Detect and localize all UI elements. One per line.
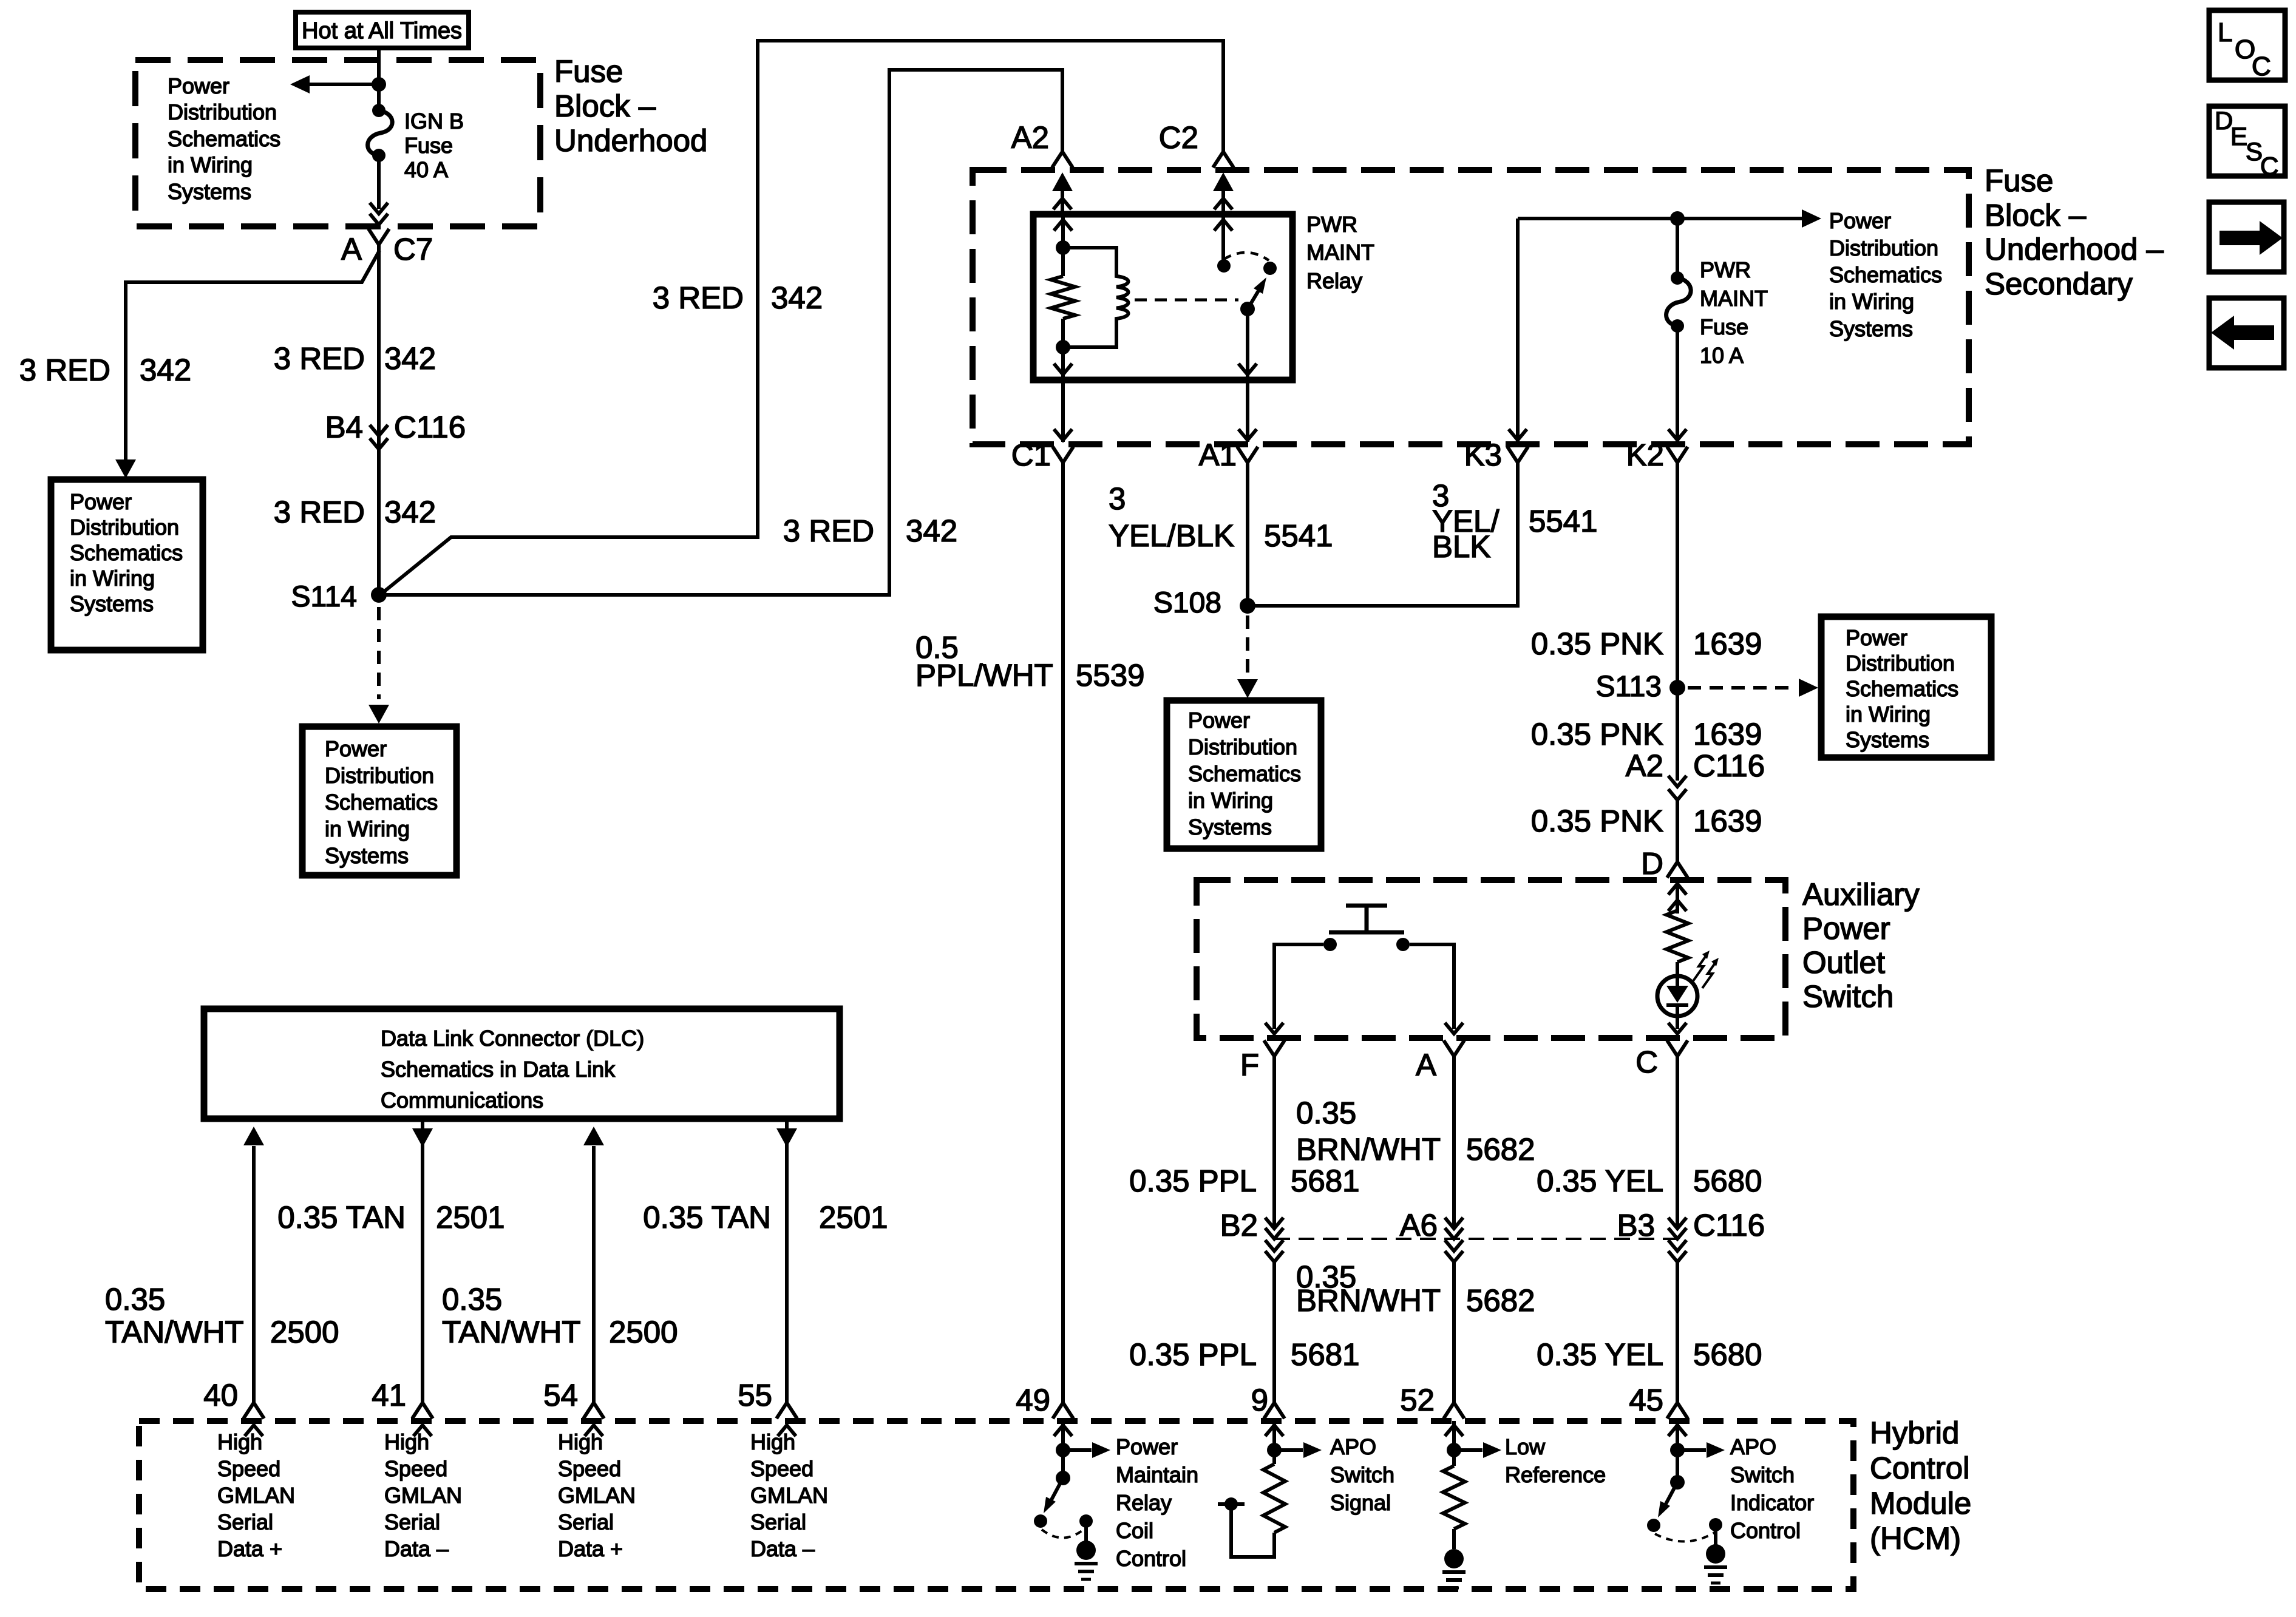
- label 0.35 PPL 5681 (lower): [1129, 1337, 1359, 1372]
- fuse block underhood dashed box: [135, 60, 540, 226]
- svg-text:BRN/WHT: BRN/WHT: [1296, 1283, 1441, 1318]
- svg-text:Schematics: Schematics: [168, 126, 280, 151]
- connector pin 52: [1400, 1383, 1464, 1436]
- label 3 RED 342 (A2 riser): [783, 514, 957, 548]
- ground (pin 49 driver): [1075, 1541, 1098, 1579]
- svg-text:1639: 1639: [1693, 626, 1762, 661]
- svg-text:5539: 5539: [1076, 658, 1144, 693]
- svg-text:Power: Power: [1116, 1434, 1178, 1459]
- svg-text:E: E: [2230, 122, 2247, 151]
- svg-text:L: L: [2218, 18, 2232, 47]
- svg-text:2500: 2500: [270, 1315, 339, 1349]
- svg-text:10 A: 10 A: [1700, 343, 1744, 368]
- svg-text:Distribution: Distribution: [168, 100, 277, 124]
- svg-text:Data –: Data –: [384, 1536, 449, 1561]
- svg-text:2500: 2500: [609, 1315, 678, 1349]
- svg-text:Hybrid: Hybrid: [1870, 1415, 1959, 1450]
- svg-text:5680: 5680: [1693, 1164, 1762, 1198]
- dashed arrow S113 to power distribution: [1688, 679, 1818, 697]
- auxiliary power outlet switch label: [1802, 877, 1920, 1014]
- svg-text:S108: S108: [1153, 587, 1221, 619]
- svg-text:PPL/WHT: PPL/WHT: [915, 658, 1053, 693]
- relay pin C1 wire out: [1054, 347, 1072, 380]
- svg-text:B2: B2: [1220, 1208, 1258, 1242]
- connector K2: [1626, 438, 1688, 472]
- svg-text:Systems: Systems: [325, 843, 409, 868]
- svg-text:in Wiring: in Wiring: [1188, 788, 1273, 813]
- svg-text:Distribution: Distribution: [1846, 651, 1955, 676]
- HCM power maintain relay coil control driver: [1034, 1421, 1110, 1542]
- power distribution schematics box (below S114): [302, 727, 457, 875]
- label 0.35 PNK 1639 (below S113): [1531, 717, 1762, 751]
- wire C7 down to S114: [377, 245, 381, 595]
- svg-text:TAN/WHT: TAN/WHT: [442, 1315, 581, 1349]
- svg-text:Power: Power: [1829, 208, 1891, 233]
- node high speed GMLAN serial data minus (55): [750, 1429, 828, 1561]
- svg-text:K3: K3: [1464, 438, 1502, 472]
- svg-text:0.35 PPL: 0.35 PPL: [1129, 1337, 1257, 1372]
- power distribution schematics note (fuse block): [168, 73, 280, 204]
- power distribution text (S108 box): [1188, 708, 1301, 839]
- wire from Hot at All Times to fuse: [377, 48, 381, 110]
- label 3 YEL/BLK 5541 (K3): [1432, 478, 1597, 564]
- data link connector text: [381, 1026, 644, 1113]
- svg-text:B3: B3: [1617, 1208, 1655, 1242]
- Hot at All Times power tag: [296, 12, 469, 48]
- label 0.35 BRN/WHT 5682 (upper): [1296, 1096, 1535, 1167]
- svg-text:0.35 TAN: 0.35 TAN: [643, 1200, 771, 1235]
- power distribution schematics box (S113): [1821, 617, 1991, 758]
- svg-text:High: High: [384, 1429, 429, 1454]
- wire A2 into relay: [1052, 172, 1073, 214]
- relay switch fixed contact (C2): [1214, 214, 1232, 273]
- svg-text:49: 49: [1016, 1383, 1050, 1417]
- wire DLC to pin 41: [412, 1119, 433, 1405]
- svg-text:Distribution: Distribution: [1829, 236, 1938, 260]
- svg-text:A: A: [341, 232, 362, 266]
- svg-text:Distribution: Distribution: [1188, 734, 1297, 759]
- inline connector B3 C116: [1617, 1208, 1765, 1262]
- svg-text:Underhood: Underhood: [554, 123, 707, 158]
- svg-text:Fuse: Fuse: [1700, 314, 1748, 339]
- svg-text:High: High: [750, 1429, 795, 1454]
- svg-text:41: 41: [372, 1378, 406, 1412]
- svg-text:342: 342: [384, 341, 436, 376]
- svg-text:55: 55: [738, 1378, 772, 1412]
- svg-text:PWR: PWR: [1306, 212, 1357, 237]
- svg-text:C: C: [1635, 1045, 1658, 1079]
- label 3 RED 342 (C2 riser): [653, 280, 823, 315]
- svg-text:TAN/WHT: TAN/WHT: [105, 1315, 244, 1349]
- svg-text:3 RED: 3 RED: [274, 341, 365, 376]
- svg-text:High: High: [558, 1429, 603, 1454]
- wire C to inline connector: [1676, 1056, 1679, 1229]
- svg-text:3 RED: 3 RED: [274, 495, 365, 529]
- svg-text:C116: C116: [1693, 1208, 1765, 1242]
- label 0.35 TAN 2501 (pin 41): [277, 1200, 504, 1235]
- PWR MAINT fuse 10A: [1666, 271, 1691, 333]
- connector A2: [1011, 120, 1073, 168]
- svg-text:Fuse: Fuse: [1985, 163, 2053, 198]
- svg-text:Relay: Relay: [1116, 1490, 1172, 1515]
- svg-text:Block –: Block –: [554, 89, 656, 123]
- power distribution schematics box (below S108): [1167, 700, 1321, 849]
- relay actuation dashed link: [1135, 299, 1238, 302]
- connector pin 9: [1251, 1383, 1285, 1436]
- svg-text:Power: Power: [1802, 911, 1890, 946]
- svg-text:0.35 PNK: 0.35 PNK: [1531, 717, 1663, 751]
- connector A1: [1199, 438, 1258, 472]
- svg-text:1639: 1639: [1693, 717, 1762, 751]
- label 0.35 PNK 1639 (above S113): [1531, 626, 1762, 661]
- label 0.35 PPL 5681 (upper): [1129, 1164, 1359, 1198]
- label 0.35 YEL 5680 (lower): [1537, 1337, 1762, 1372]
- svg-text:Schematics: Schematics: [70, 540, 183, 565]
- svg-text:Systems: Systems: [1188, 815, 1272, 839]
- fuse block underhood secondary label: [1985, 163, 2164, 301]
- svg-text:Speed: Speed: [750, 1456, 813, 1481]
- fuse block underhood label: [554, 54, 707, 158]
- svg-text:Serial: Serial: [750, 1510, 806, 1534]
- label 0.35 TAN/WHT 2500 (pin 54): [442, 1282, 678, 1349]
- LED indicator: [1657, 962, 1697, 1016]
- push button plunger: [1329, 906, 1404, 932]
- svg-text:Power: Power: [1188, 708, 1250, 733]
- svg-text:342: 342: [906, 514, 957, 548]
- wire A6 to HCM pin 52: [1452, 1262, 1456, 1405]
- switch LED feed wire: [1668, 880, 1686, 914]
- svg-text:2501: 2501: [819, 1200, 888, 1235]
- wire A to inline connector: [1452, 1056, 1456, 1229]
- connector pin 49: [1016, 1383, 1073, 1436]
- svg-text:9: 9: [1251, 1383, 1268, 1417]
- svg-text:Hot at All Times: Hot at All Times: [302, 18, 462, 44]
- power distribution note (secondary): [1829, 208, 1942, 341]
- svg-text:in Wiring: in Wiring: [168, 152, 253, 177]
- svg-text:Speed: Speed: [384, 1456, 447, 1481]
- wire branch A to left power distribution: [126, 251, 379, 459]
- inline connector C116 pin B4: [325, 410, 466, 449]
- svg-text:YEL/BLK: YEL/BLK: [1109, 518, 1234, 553]
- svg-text:Power: Power: [325, 736, 387, 761]
- wire S113 to C116: [1676, 688, 1679, 781]
- svg-text:3: 3: [1109, 481, 1126, 516]
- svg-text:A2: A2: [1011, 120, 1049, 155]
- data link connector box: [204, 1009, 840, 1119]
- fuse block underhood secondary dashed box: [973, 170, 1969, 444]
- node low reference: [1505, 1434, 1606, 1487]
- connector C1: [1011, 438, 1073, 472]
- svg-text:GMLAN: GMLAN: [558, 1483, 636, 1508]
- svg-text:Schematics: Schematics: [1188, 761, 1301, 786]
- svg-text:A: A: [1416, 1048, 1436, 1082]
- svg-text:Secondary: Secondary: [1985, 266, 2133, 301]
- svg-text:K2: K2: [1626, 438, 1664, 472]
- svg-text:0.35 PNK: 0.35 PNK: [1531, 804, 1663, 838]
- label 0.5 PPL/WHT 5539: [915, 630, 1144, 693]
- svg-text:MAINT: MAINT: [1700, 286, 1768, 311]
- svg-text:40: 40: [203, 1378, 238, 1412]
- svg-text:Schematics: Schematics: [1829, 262, 1942, 287]
- wire K3 riser: [1509, 219, 1527, 442]
- svg-text:0.35 YEL: 0.35 YEL: [1537, 1337, 1663, 1372]
- svg-text:in Wiring: in Wiring: [325, 816, 410, 841]
- svg-text:Outlet: Outlet: [1802, 945, 1885, 980]
- svg-text:Power: Power: [70, 489, 132, 514]
- svg-text:Data –: Data –: [750, 1536, 815, 1561]
- relay switch contact arc: [1224, 253, 1269, 260]
- svg-text:Systems: Systems: [168, 179, 251, 204]
- inline connector row dashed line: [1274, 1238, 1677, 1240]
- splice S108: [1153, 587, 1255, 619]
- svg-text:5682: 5682: [1466, 1283, 1535, 1318]
- svg-text:A2: A2: [1626, 748, 1663, 783]
- dashed wire S114 to power distribution: [369, 607, 389, 724]
- relay coil: [1063, 248, 1129, 347]
- node high speed GMLAN serial data minus (41): [384, 1429, 462, 1561]
- hybrid control module dashed box: [139, 1421, 1853, 1589]
- svg-text:Switch: Switch: [1802, 979, 1894, 1014]
- DESC icon: [2209, 106, 2285, 180]
- HCM APO switch signal pull-up: [1218, 1421, 1322, 1557]
- connector pin 40: [203, 1378, 264, 1436]
- svg-text:PWR: PWR: [1700, 257, 1751, 282]
- svg-text:BRN/WHT: BRN/WHT: [1296, 1132, 1441, 1167]
- connector C7 pin A: [341, 229, 433, 266]
- wire DLC to pin 54: [583, 1127, 604, 1405]
- svg-text:C1: C1: [1011, 438, 1051, 472]
- arrow to other circuits (left): [290, 75, 386, 93]
- connector pin 41: [372, 1378, 433, 1436]
- svg-text:Control: Control: [1730, 1518, 1801, 1543]
- svg-text:45: 45: [1629, 1383, 1663, 1417]
- switch wire to pin A: [1410, 944, 1463, 1034]
- relay switch NC contact: [1263, 262, 1277, 275]
- svg-text:Signal: Signal: [1330, 1490, 1391, 1515]
- power distribution text (left box): [70, 489, 183, 616]
- connector pin A: [1416, 1040, 1464, 1082]
- svg-text:Distribution: Distribution: [325, 763, 434, 788]
- auxiliary power outlet switch dashed box: [1197, 880, 1785, 1038]
- svg-text:High: High: [217, 1429, 262, 1454]
- svg-text:5681: 5681: [1291, 1337, 1359, 1372]
- LED wire to pin C: [1668, 1016, 1686, 1034]
- power distribution text (S113 box): [1846, 625, 1958, 752]
- svg-text:Switch: Switch: [1730, 1462, 1795, 1487]
- splice S114: [291, 581, 387, 613]
- HCM APO switch indicator control driver: [1647, 1421, 1725, 1545]
- wire C1 to box edge: [1054, 380, 1072, 442]
- svg-text:Data +: Data +: [217, 1536, 282, 1561]
- push button contacts: [1323, 938, 1410, 951]
- svg-text:52: 52: [1400, 1383, 1435, 1417]
- wire K3 to S108: [1248, 463, 1518, 606]
- svg-text:5680: 5680: [1693, 1337, 1762, 1372]
- label 3 RED 342 (below C116): [274, 495, 436, 529]
- svg-text:IGN B: IGN B: [404, 109, 464, 134]
- relay switch common and arm: [1240, 277, 1266, 316]
- svg-text:0.35: 0.35: [105, 1282, 165, 1317]
- svg-text:40 A: 40 A: [404, 157, 448, 182]
- inline connector C116 pin A2: [1626, 748, 1765, 800]
- connector pin D: [1641, 846, 1688, 881]
- svg-text:GMLAN: GMLAN: [384, 1483, 462, 1508]
- svg-text:MAINT: MAINT: [1306, 240, 1374, 265]
- svg-text:Systems: Systems: [70, 591, 154, 616]
- svg-text:5541: 5541: [1264, 518, 1333, 553]
- svg-text:3 RED: 3 RED: [19, 353, 110, 387]
- wire DLC to pin 55: [776, 1119, 797, 1405]
- svg-text:Maintain: Maintain: [1116, 1462, 1198, 1487]
- connector pin 45: [1629, 1383, 1688, 1436]
- connector C2: [1159, 120, 1234, 168]
- label 0.35 PNK 1639 (to switch): [1531, 804, 1762, 838]
- svg-text:Serial: Serial: [217, 1510, 273, 1534]
- svg-text:Systems: Systems: [1829, 316, 1913, 341]
- label 0.35 BRN/WHT 5682 (lower): [1296, 1259, 1535, 1318]
- svg-text:0.35 PNK: 0.35 PNK: [1531, 626, 1663, 661]
- ground (pin 52): [1442, 1549, 1466, 1588]
- wire DLC to pin 40: [243, 1127, 264, 1405]
- PWR MAINT relay box: [1033, 214, 1292, 380]
- fuse IGN B 40A: [368, 104, 393, 162]
- switch wire to pin F: [1265, 944, 1323, 1034]
- HCM low reference resistor: [1443, 1421, 1501, 1549]
- wire C116 to aux switch pin D: [1676, 800, 1679, 862]
- inline connector A6: [1400, 1208, 1463, 1262]
- svg-text:3 RED: 3 RED: [653, 280, 744, 315]
- wire C1 to HCM pin 49: [1061, 463, 1065, 1405]
- wire F to inline connector: [1272, 1056, 1276, 1229]
- svg-text:in Wiring: in Wiring: [1846, 702, 1931, 727]
- svg-text:Speed: Speed: [558, 1456, 621, 1481]
- splice S113: [1595, 671, 1685, 703]
- svg-text:C116: C116: [1693, 748, 1765, 783]
- svg-text:Coil: Coil: [1116, 1518, 1153, 1543]
- svg-text:Serial: Serial: [384, 1510, 440, 1534]
- svg-text:GMLAN: GMLAN: [750, 1483, 828, 1508]
- svg-text:0.35 TAN: 0.35 TAN: [277, 1200, 406, 1235]
- svg-text:Schematics: Schematics: [1846, 676, 1958, 701]
- svg-text:GMLAN: GMLAN: [217, 1483, 295, 1508]
- svg-text:B4: B4: [325, 410, 363, 444]
- svg-text:A6: A6: [1400, 1208, 1438, 1242]
- svg-text:Schematics: Schematics: [325, 790, 438, 815]
- svg-text:Power: Power: [168, 73, 229, 98]
- svg-text:Relay: Relay: [1306, 268, 1362, 293]
- svg-text:Systems: Systems: [1846, 727, 1929, 752]
- relay coil pin A2 wire: [1054, 214, 1072, 255]
- svg-text:BLK: BLK: [1432, 529, 1490, 564]
- svg-text:Reference: Reference: [1505, 1462, 1606, 1487]
- svg-text:Data Link Connector (DLC): Data Link Connector (DLC): [381, 1026, 644, 1051]
- svg-text:342: 342: [384, 495, 436, 529]
- wire S114 right branch to A2: [379, 70, 1062, 595]
- dashed wire S108 to power distribution: [1237, 615, 1258, 698]
- LED series resistor: [1666, 910, 1688, 962]
- svg-text:0.35 YEL: 0.35 YEL: [1537, 1164, 1663, 1198]
- svg-text:5682: 5682: [1466, 1132, 1535, 1167]
- connector pin 55: [738, 1378, 797, 1436]
- svg-text:Distribution: Distribution: [70, 515, 179, 540]
- svg-text:5541: 5541: [1529, 504, 1597, 538]
- PWR MAINT relay label: [1306, 212, 1374, 293]
- relay coil suppression resistor: [1051, 248, 1075, 354]
- node APO switch indicator control: [1730, 1434, 1814, 1543]
- node APO switch signal: [1330, 1434, 1394, 1515]
- svg-text:Indicator: Indicator: [1730, 1490, 1814, 1515]
- connector pin C: [1635, 1040, 1688, 1079]
- svg-text:5681: 5681: [1291, 1164, 1359, 1198]
- svg-text:APO: APO: [1330, 1434, 1376, 1459]
- node power maintain relay coil control: [1116, 1434, 1198, 1571]
- svg-text:Communications: Communications: [381, 1088, 543, 1113]
- wire K2 to box edge: [1668, 326, 1686, 442]
- wire C2 into relay: [1213, 172, 1234, 214]
- ground (pin 45 driver): [1704, 1544, 1727, 1583]
- svg-text:342: 342: [140, 353, 191, 387]
- svg-text:342: 342: [771, 280, 823, 315]
- svg-text:Control: Control: [1870, 1451, 1969, 1485]
- svg-text:1639: 1639: [1693, 804, 1762, 838]
- svg-text:S113: S113: [1595, 671, 1662, 703]
- label 0.35 YEL 5680 (upper): [1537, 1164, 1762, 1198]
- svg-text:Serial: Serial: [558, 1510, 614, 1534]
- svg-text:Fuse: Fuse: [404, 133, 453, 158]
- svg-text:0.35 PPL: 0.35 PPL: [1129, 1164, 1257, 1198]
- svg-text:F: F: [1240, 1048, 1259, 1082]
- svg-text:C: C: [2252, 52, 2271, 81]
- svg-text:Power: Power: [1846, 625, 1907, 650]
- hybrid control module label: [1870, 1415, 1971, 1556]
- svg-text:D: D: [1641, 846, 1663, 881]
- relay pin A1 wire out: [1238, 309, 1257, 380]
- label 3 RED 342 (left branch): [19, 353, 191, 387]
- svg-text:0.35: 0.35: [442, 1282, 502, 1317]
- arrow into power distribution box (left): [115, 459, 136, 478]
- label 3 YEL/BLK 5541 (A1): [1109, 481, 1333, 553]
- PWR MAINT fuse branch top wire: [1518, 209, 1821, 228]
- svg-text:2501: 2501: [436, 1200, 504, 1235]
- svg-text:Block –: Block –: [1985, 198, 2087, 232]
- svg-text:Data +: Data +: [558, 1536, 623, 1561]
- label 0.35 TAN 2501 (pin 55): [643, 1200, 888, 1235]
- LOC icon: [2209, 10, 2285, 81]
- svg-text:Underhood –: Underhood –: [1985, 232, 2164, 266]
- svg-text:in Wiring: in Wiring: [70, 566, 155, 591]
- connector pin F: [1240, 1040, 1285, 1082]
- node high speed GMLAN serial data plus (40): [217, 1429, 295, 1561]
- inline connector B2: [1220, 1208, 1283, 1262]
- svg-text:A1: A1: [1199, 438, 1237, 472]
- label PWR MAINT Fuse 10 A: [1700, 257, 1768, 368]
- svg-text:Switch: Switch: [1330, 1462, 1394, 1487]
- wire tap to PWR MAINT fuse: [1676, 219, 1679, 278]
- svg-text:54: 54: [543, 1378, 578, 1412]
- svg-text:APO: APO: [1730, 1434, 1776, 1459]
- wire K2 to S113: [1676, 463, 1679, 688]
- svg-text:C2: C2: [1159, 120, 1198, 155]
- svg-text:Fuse: Fuse: [554, 54, 623, 89]
- back arrow icon: [2209, 298, 2284, 368]
- power distribution text (S114 box): [325, 736, 438, 868]
- wire B3 to HCM pin 45: [1676, 1262, 1679, 1405]
- connector pin 54: [543, 1378, 604, 1436]
- svg-text:Control: Control: [1116, 1546, 1186, 1571]
- svg-text:Low: Low: [1505, 1434, 1546, 1459]
- connector K3: [1464, 438, 1528, 472]
- LED light arrows: [1693, 951, 1719, 988]
